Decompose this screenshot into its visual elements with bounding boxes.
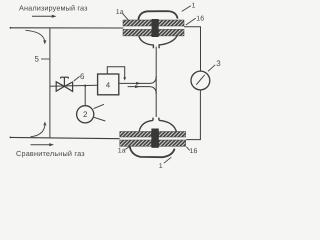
- svg-text:Сравнительный газ: Сравнительный газ: [16, 149, 85, 158]
- wire: to meter from top chamber: [184, 27, 201, 71]
- svg-text:1: 1: [192, 3, 196, 10]
- svg-text:1: 1: [159, 163, 163, 170]
- wire: meter to bottom chamber: [186, 90, 200, 140]
- svg-text:16: 16: [190, 148, 198, 155]
- wire: upper output with elbow up: [119, 76, 156, 85]
- wire: main vertical between chambers: [155, 47, 157, 117]
- chamber 1b (bottom) hatched blocks: [159, 132, 186, 138]
- svg-text:4: 4: [106, 81, 110, 90]
- chamber 1 (bottom): funnel/neck: [139, 118, 177, 133]
- node: junction: [84, 85, 86, 87]
- wire: top gas pipe: [10, 27, 123, 29]
- chamber 1b (top) hatched blocks: [159, 20, 184, 26]
- chamber 1 (top): dome: [138, 11, 177, 21]
- chamber 1a (top) hatched blocks: [123, 20, 152, 26]
- emitter 2: [77, 106, 94, 123]
- wire: vertical pipe 5: [49, 28, 51, 138]
- svg-text:16: 16: [196, 16, 204, 23]
- svg-text:2: 2: [83, 110, 88, 119]
- wire: valve line to box: [50, 85, 98, 86]
- svg-text:6: 6: [80, 72, 85, 81]
- flow arrow under top text: [32, 15, 57, 18]
- flow arrow under bottom pipe: [31, 143, 55, 146]
- curved arrow up (bottom): [31, 122, 47, 137]
- wire: bottom gas pipe: [10, 137, 120, 138]
- wire: lower output with elbow down: [128, 85, 157, 94]
- chamber 1a (bottom) hatched blocks: [120, 132, 152, 138]
- chamber 1 (bottom) central partition: [151, 129, 158, 148]
- chamber 1 (top) central partition: [152, 19, 159, 37]
- valve 6: [56, 77, 72, 91]
- meter 3: [191, 71, 210, 90]
- wire: drop to emitter: [84, 86, 86, 106]
- svg-text:1а: 1а: [118, 147, 126, 154]
- svg-text:3: 3: [216, 59, 221, 68]
- curved arrow into vertical pipe (top): [26, 30, 47, 44]
- chamber 1 (bottom): dome: [130, 147, 175, 158]
- svg-text:Анализируемый газ: Анализируемый газ: [19, 3, 88, 12]
- svg-text:1а: 1а: [116, 9, 124, 16]
- box 4: [98, 74, 119, 95]
- chamber 1 (top): funnel: [139, 34, 178, 48]
- svg-text:5: 5: [35, 55, 40, 64]
- wire: loop over box: [107, 67, 126, 81]
